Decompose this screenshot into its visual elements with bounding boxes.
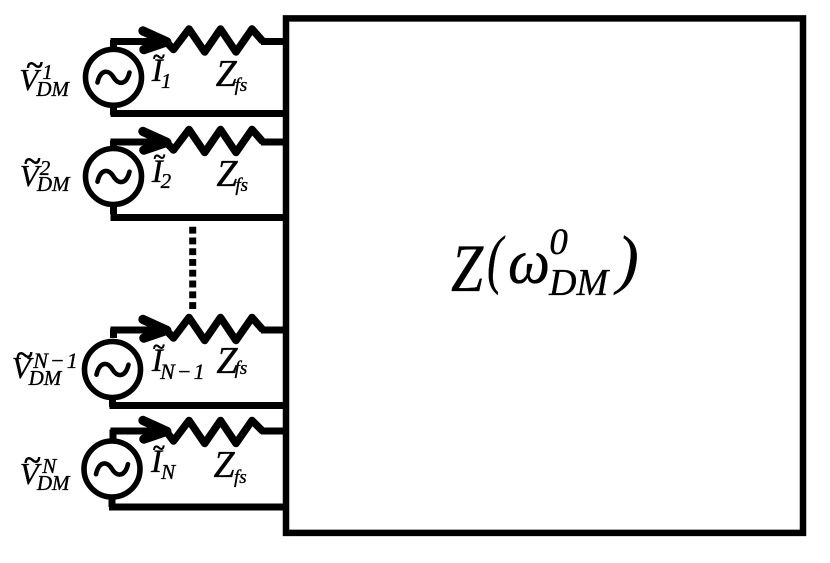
wire source2 bottom to box [111,214,290,221]
branch 1 [86,29,290,115]
wire stub source1 top [110,40,117,50]
resistor Zfs1 [166,29,263,52]
wire resistor4 to box [261,428,289,435]
wire source1 bottom to box [111,110,290,117]
label Zfs3 [0,0,1,1]
wire source3 bottom to box [110,402,290,409]
wire source4 bottom to box [109,504,289,511]
branch 3 (N-1) [85,318,290,408]
wire stub source4 bottom [109,496,116,507]
AC source VN-1 [85,342,141,398]
branch 2 [86,130,290,218]
label V1DM [0,0,1,1]
wire source4 top to resistor [111,428,169,435]
label V2DM [0,0,1,1]
label IN [0,0,1,1]
label Z(omega0DM) [0,0,1,1]
AC source V2 [86,149,142,205]
current arrow I2 [143,131,167,150]
label I1 [0,0,1,1]
current arrow I1 [143,31,167,50]
label I2 [0,0,1,1]
resistor Zfs4 [166,421,263,444]
wire resistor3 to box [261,327,289,334]
label Zfs4 [0,0,1,1]
label IN1 [0,0,1,1]
wire source2 top to resistor [111,139,169,146]
wire stub source3 bottom [109,396,116,407]
dotted continuation line [189,227,196,310]
label VN1DM [0,0,1,1]
AC source VN [84,441,140,497]
resistor Zfs2 [166,130,263,153]
wire source1 top to resistor [111,38,169,45]
wire stub source4 top [110,430,117,440]
AC source V1 [86,49,142,105]
branch 4 (N) [84,420,289,507]
wire resistor2 to box [261,139,289,146]
wire stub source3 top [110,329,117,339]
wire source3 top to resistor [111,327,169,334]
label Zfs2 [0,0,1,1]
current arrow IN [143,420,167,439]
label VNDM [0,0,1,1]
wire resistor1 to box [261,38,289,45]
label Zfs1 [0,0,1,1]
wire stub source2 bottom [110,203,117,214]
wire stub source1 bottom [110,104,117,115]
current arrow IN-1 [143,319,167,338]
wire stub source2 top [110,141,117,151]
resistor Zfs3 [166,318,263,341]
impedance network box Z [286,18,803,533]
